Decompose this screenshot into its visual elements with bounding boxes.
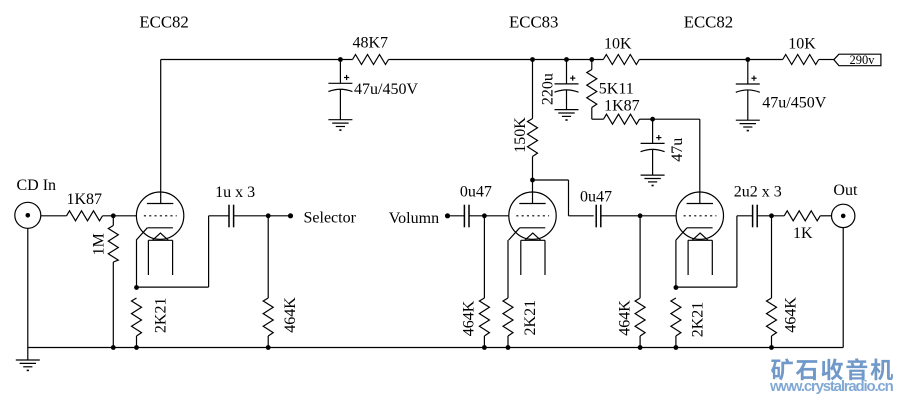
svg-text:1K: 1K — [793, 225, 813, 242]
svg-text:464K: 464K — [282, 297, 299, 333]
capacitor 47u V3 plate bypass — [641, 119, 665, 175]
wire cap to V3 grid — [601, 215, 676, 217]
junction V2 grid node — [482, 213, 487, 218]
junction rail 220u node — [564, 57, 569, 62]
terminal Selector — [288, 213, 293, 218]
resistor 1K87 dropper — [592, 114, 653, 124]
svg-text:2K21: 2K21 — [522, 300, 539, 336]
capacitor 47u/450V second — [736, 60, 760, 121]
junction 464K V2 to bus — [482, 345, 487, 350]
svg-text:0u47: 0u47 — [580, 189, 612, 206]
triode V2 ECC83 — [509, 192, 557, 275]
ground filter cap 1 — [328, 120, 352, 130]
ground input — [16, 360, 40, 370]
junction rail filter cap 2 — [745, 57, 750, 62]
wire supply node to V3 plate — [653, 119, 700, 203]
ground filter cap 2 — [736, 120, 760, 130]
svg-text:CD In: CD In — [17, 177, 57, 194]
junction 464K output to bus — [769, 345, 774, 350]
svg-text:1K87: 1K87 — [67, 191, 103, 208]
junction 464K V3 to bus — [638, 345, 643, 350]
svg-text:ECC83: ECC83 — [509, 13, 558, 32]
svg-text:Volumn: Volumn — [389, 210, 439, 227]
capacitor 220u decoupling — [555, 60, 579, 110]
svg-text:0u47: 0u47 — [460, 184, 492, 201]
resistor 2K21 V3 cathode — [671, 298, 681, 348]
junction output node — [769, 213, 774, 218]
junction V3 grid node — [638, 213, 643, 218]
wire V2 plate to coupling cap — [533, 180, 594, 216]
capacitor 0u47 V2 input — [464, 205, 469, 228]
wire cap to V2 grid — [469, 215, 509, 217]
resistor 2K21 V2 cathode — [503, 298, 513, 348]
resistor 48K7 rail — [340, 55, 532, 65]
junction V3 cathode node — [674, 285, 679, 290]
junction 2K21 V2 to bus — [506, 345, 511, 350]
svg-text:2u2 x 3: 2u2 x 3 — [734, 184, 782, 201]
svg-text:150K: 150K — [512, 117, 529, 153]
resistor 464K V2 grid — [479, 216, 489, 348]
svg-text:Out: Out — [833, 182, 858, 199]
svg-text:ECC82: ECC82 — [139, 13, 188, 32]
wire V2 plate lead — [532, 180, 534, 204]
ground 47u bypass — [641, 175, 665, 185]
resistor 5K11 dropper — [587, 60, 597, 120]
svg-text:464K: 464K — [783, 297, 800, 333]
capacitor 1u x 3 coupling — [229, 205, 234, 228]
wire V1 plate to rail — [161, 60, 341, 204]
junction grid node V1 — [111, 213, 116, 218]
terminal Volumn input — [445, 213, 450, 218]
svg-text:1K87: 1K87 — [604, 98, 640, 115]
svg-text:5K11: 5K11 — [599, 81, 634, 98]
capacitor 47u/450V first — [328, 60, 352, 120]
resistor 10K rail right — [748, 55, 834, 65]
svg-text:www.crystalradio.cn: www.crystalradio.cn — [769, 378, 894, 395]
svg-text:1u x 3: 1u x 3 — [215, 184, 255, 201]
junction rail 5K11 node — [589, 57, 594, 62]
resistor 150K V2 plate load — [528, 60, 538, 181]
junction rail 150K node — [530, 57, 535, 62]
junction 2K21 V3 to bus — [674, 345, 679, 350]
wire jack to R 1K87 — [41, 215, 67, 217]
resistor 464K output — [767, 216, 777, 348]
resistor 464K Selector load — [263, 216, 273, 348]
terminal 290v supply flag — [834, 54, 881, 65]
wire V2 cathode to 2K21 — [507, 240, 509, 298]
svg-text:290v: 290v — [850, 53, 876, 67]
wire jack to ground bus — [842, 228, 844, 348]
junction 464K Selector to bus — [266, 345, 271, 350]
svg-text:47u/450V: 47u/450V — [354, 81, 418, 98]
ground 220u — [555, 110, 579, 120]
junction Selector node — [266, 213, 271, 218]
capacitor 2u2 x 3 output — [753, 205, 758, 228]
svg-text:47u/450V: 47u/450V — [762, 95, 826, 112]
capacitor 0u47 interstage — [596, 205, 601, 228]
triode V1 ECC82 — [136, 192, 184, 275]
svg-text:Selector: Selector — [304, 210, 357, 227]
junction 2K21 to bus — [134, 345, 139, 350]
wire cap to Selector — [234, 215, 291, 217]
triode V3 ECC82 — [676, 192, 724, 275]
svg-text:220u: 220u — [540, 73, 557, 105]
wire jack ground drop — [27, 228, 29, 359]
resistor 1K87 input — [67, 211, 103, 221]
wire cap to output node — [757, 215, 784, 217]
output jack Out — [832, 204, 855, 227]
wire Volumn to cap — [448, 215, 465, 217]
wire cathode node to output cap — [676, 216, 753, 287]
wire R 1K to jack — [820, 215, 831, 217]
wire cathode node to coupling cap — [137, 216, 230, 287]
svg-text:2K21: 2K21 — [152, 298, 169, 334]
svg-text:48K7: 48K7 — [353, 35, 389, 52]
resistor 10K rail middle — [533, 55, 748, 65]
resistor 2K21 V1 cathode — [132, 298, 142, 348]
wire V3 cathode drop — [675, 240, 677, 287]
resistor 1K output — [784, 211, 820, 221]
svg-text:464K: 464K — [461, 300, 478, 336]
svg-text:47u: 47u — [669, 138, 686, 162]
junction V3 plate supply node — [650, 117, 655, 122]
junction V2 plate node — [530, 178, 535, 183]
svg-text:2K21: 2K21 — [690, 302, 707, 338]
junction 1M to ground bus — [111, 345, 116, 350]
input jack CD In — [15, 202, 41, 228]
svg-text:10K: 10K — [788, 36, 816, 53]
watermark chinese text — [771, 358, 793, 380]
resistor 1M grid leak — [108, 216, 118, 348]
wire R 1K87 to tube V1 grid — [103, 215, 137, 217]
svg-text:ECC82: ECC82 — [684, 13, 733, 32]
svg-text:1M: 1M — [91, 233, 108, 255]
svg-text:464K: 464K — [617, 300, 634, 336]
junction V1 cathode node — [134, 285, 139, 290]
svg-text:10K: 10K — [604, 36, 632, 53]
wire V1 cathode drop — [136, 240, 138, 287]
junction rail filter cap 1 — [338, 57, 343, 62]
ground bus wire — [28, 347, 843, 349]
resistor 464K V3 grid — [635, 216, 645, 348]
